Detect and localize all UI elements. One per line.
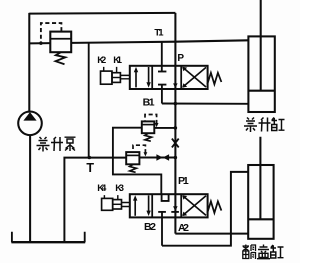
check valve CV2 pilot (dashed) — [133, 145, 147, 156]
valve V2 down arrow — [146, 195, 150, 216]
relief valve spring — [56, 52, 66, 64]
node B1/P1 crossing — [174, 102, 178, 106]
solenoid stubs — [104, 67, 117, 73]
node T junction — [88, 156, 92, 160]
svg-text:T1: T1 — [154, 28, 164, 39]
wire top rail T1 — [29, 12, 175, 15]
tank — [11, 232, 85, 243]
check valve CV1 pilot (dashed) — [145, 115, 159, 128]
svg-text:K2: K2 — [97, 54, 106, 65]
flip cylinder barrel — [248, 165, 273, 239]
solenoid stubs bottom — [104, 195, 117, 200]
flip cylinder rod — [259, 137, 261, 219]
lift cylinder rod — [260, 0, 262, 90]
wire CV1 right port — [154, 127, 175, 129]
label flip cylinder (翻盖缸) — [243, 245, 284, 260]
check valve CV2 body — [126, 152, 139, 164]
wire CV1 left branch — [113, 128, 161, 195]
lift cylinder barrel — [248, 36, 274, 112]
wire T return pipe — [64, 158, 126, 242]
valve V2 blocked B2 — [158, 212, 166, 246]
svg-text:K1: K1 — [113, 54, 122, 65]
valve V1 spring W — [207, 73, 221, 85]
valve V2 P1 arrow — [173, 206, 178, 211]
check valve CV2 spring — [130, 164, 137, 172]
check valve CV1 spring — [145, 133, 152, 141]
svg-text:K3: K3 — [115, 182, 124, 193]
valve V2 blocked A2 bar — [171, 211, 179, 213]
lift cylinder piston — [248, 90, 274, 92]
flip cylinder piston — [248, 218, 273, 220]
node pilot junction — [39, 42, 42, 45]
relief valve pilot line (dashed) — [41, 23, 62, 43]
wire pump suction pipe — [29, 135, 31, 241]
valve V1 body — [130, 66, 208, 89]
svg-text:P: P — [177, 53, 184, 64]
wire T line right segment — [139, 157, 175, 159]
shutoff bowtie on T line — [156, 154, 169, 160]
wire long vertical P/P1/A2 — [174, 13, 176, 234]
valve V1 P arrow — [173, 83, 178, 88]
wire main pressure line — [29, 40, 248, 43]
check valve CV1 body — [142, 121, 155, 133]
svg-text:B1: B1 — [143, 97, 155, 109]
solenoid K1 box — [112, 73, 120, 83]
svg-text:K4: K4 — [97, 182, 107, 193]
wire P-port entry with blocked T — [158, 42, 166, 71]
wire branch to T junction — [88, 43, 90, 158]
valve V2 spring W — [207, 201, 221, 213]
valve V1 blocked B-port — [158, 85, 166, 104]
valve V1 crossed arrows X — [182, 67, 206, 88]
wire left vertical pump riser — [28, 13, 30, 113]
wire B1 line to lift cylinder — [162, 103, 249, 105]
solenoid connector to valve bottom — [122, 203, 130, 207]
orifice X on vertical — [172, 139, 179, 148]
label lift pump (举升泵) — [37, 137, 76, 152]
valve V2 body — [130, 194, 208, 217]
svg-text:P1: P1 — [178, 175, 189, 187]
valve V2 crossed arrows X — [182, 195, 206, 216]
wire A2 line — [175, 233, 248, 235]
svg-text:A2: A2 — [178, 222, 189, 234]
svg-text:T: T — [86, 161, 94, 175]
solenoid connector to valve — [120, 75, 129, 78]
solenoid K4 box — [102, 198, 113, 210]
pump outlet triangle — [23, 112, 36, 121]
node CV1 out — [174, 126, 178, 130]
valve V2 up arrow — [133, 195, 137, 216]
solenoid K3 box — [113, 200, 122, 209]
relief valve body — [50, 32, 71, 53]
pump P (circle) — [18, 112, 42, 136]
solenoid K2 box — [101, 71, 113, 84]
wire B2 line — [162, 172, 248, 246]
node T line / vertical junction — [174, 156, 178, 160]
valve V1 down arrow — [146, 67, 150, 88]
svg-text:B2: B2 — [144, 221, 156, 233]
valve V2 notch port — [162, 194, 169, 201]
label lift cylinder (举升缸) — [244, 118, 285, 133]
valve V1 up arrow — [134, 67, 138, 88]
